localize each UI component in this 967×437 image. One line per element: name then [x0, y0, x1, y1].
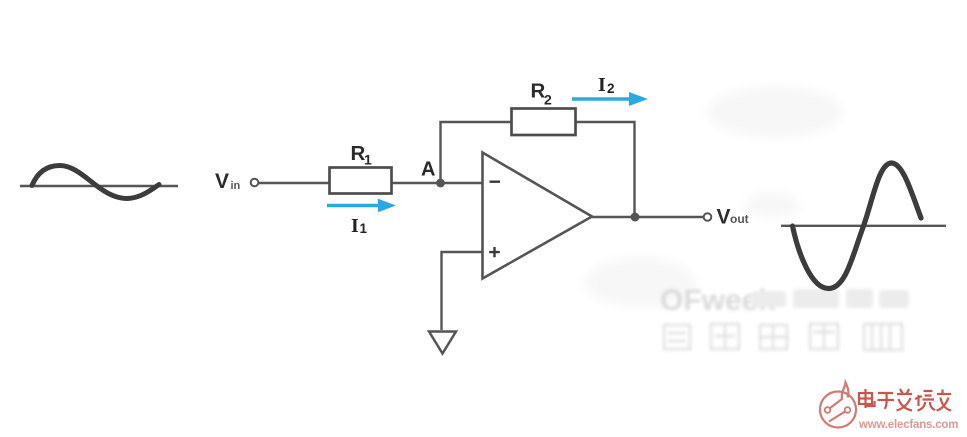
svg-text:1: 1 — [360, 221, 368, 236]
svg-text:1: 1 — [364, 152, 372, 168]
svg-text:2: 2 — [607, 81, 615, 96]
svg-text:V: V — [717, 206, 731, 229]
svg-text:out: out — [730, 212, 749, 226]
svg-text:V: V — [215, 170, 229, 193]
svg-text:A: A — [421, 159, 435, 181]
svg-text:www.elecfans.com: www.elecfans.com — [858, 419, 958, 431]
svg-text:2: 2 — [544, 92, 552, 108]
svg-text:I: I — [351, 215, 359, 237]
svg-text:in: in — [231, 180, 241, 192]
svg-text:I: I — [598, 74, 606, 96]
